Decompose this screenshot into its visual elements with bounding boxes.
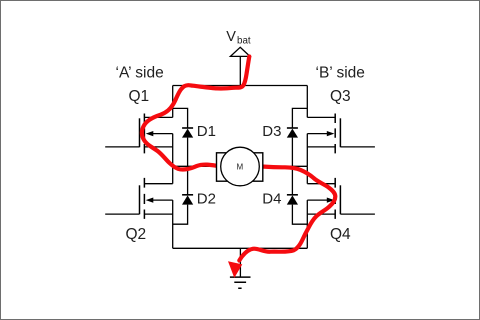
wire left motor node — [173, 165, 217, 167]
wire Q4 source to bottom rail — [306, 200, 308, 248]
transistor Q3 — [307, 114, 375, 154]
current path — [142, 57, 335, 261]
diode D4 — [287, 195, 298, 205]
transistor Q2 — [105, 178, 173, 219]
wire node to Q4 drain — [306, 166, 308, 183]
wire Q3 source to right motor node — [306, 134, 308, 167]
wire D1 cathode tap — [173, 108, 188, 128]
wire D3 anode to node — [291, 138, 293, 167]
wire right motor node — [263, 165, 308, 167]
wire bottom rail — [173, 247, 308, 249]
svg-text:bat: bat — [237, 35, 251, 46]
svg-text:D2: D2 — [197, 191, 216, 208]
ground — [230, 248, 251, 288]
svg-text:D3: D3 — [262, 123, 281, 140]
wire left branch from rail to Q1 drain — [172, 86, 174, 118]
svg-text:M: M — [236, 162, 243, 171]
wire top rail — [173, 85, 308, 87]
label Vbat — [226, 29, 251, 46]
wire D3 cathode tap — [292, 108, 307, 128]
svg-text:Q3: Q3 — [330, 88, 351, 105]
wire node to Q2 drain — [172, 166, 174, 183]
Vbat supply symbol — [239, 56, 241, 85]
wire D1 anode to node — [187, 138, 189, 167]
wire D2 anode jog to Q2 source — [173, 205, 188, 225]
wire right branch from rail to Q3 drain — [306, 86, 308, 118]
svg-text:V: V — [226, 29, 236, 45]
wire node to D4 cathode — [291, 166, 293, 195]
svg-text:Q1: Q1 — [129, 88, 150, 105]
transistor Q1 — [105, 114, 173, 154]
diode D2 — [182, 195, 193, 205]
svg-text:Q4: Q4 — [330, 226, 351, 243]
svg-text:D1: D1 — [197, 123, 216, 140]
diode D3 — [287, 128, 298, 138]
transistor Q4 — [307, 178, 375, 219]
svg-text:Q2: Q2 — [126, 226, 147, 243]
svg-text:‘A’ side: ‘A’ side — [116, 65, 164, 82]
wire Q2 source to bottom rail — [172, 200, 174, 248]
current arrowhead — [228, 261, 242, 278]
svg-text:‘B’ side: ‘B’ side — [316, 65, 365, 82]
wire node to D2 cathode — [187, 166, 189, 195]
diode D1 — [182, 128, 193, 138]
svg-text:D4: D4 — [262, 191, 281, 208]
wire Q1 source to left motor node — [172, 134, 174, 167]
motor M — [217, 147, 263, 186]
wire D4 anode jog to Q4 source — [292, 205, 307, 225]
